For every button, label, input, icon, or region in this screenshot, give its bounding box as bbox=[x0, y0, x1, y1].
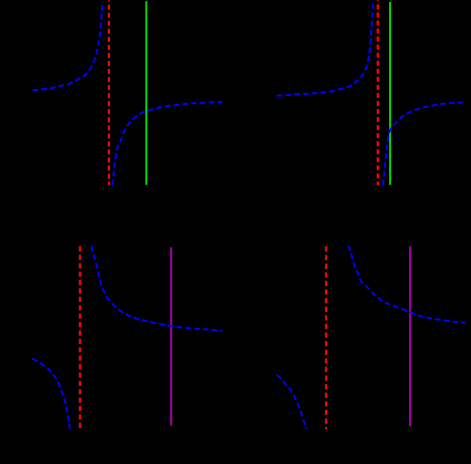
S3 magenta solid vertical line x=171.2 bbox=[170, 247, 172, 426]
S4 blue dashed hyperbola right branch bbox=[348, 246, 466, 323]
S3 blue dashed hyperbola left branch bbox=[32, 359, 70, 429]
S4 magenta solid vertical line x=410.1 bbox=[409, 246, 411, 426]
S2 blue dashed hyperbola left branch bbox=[277, 1, 374, 96]
S4 red dashed vertical asymptote x=326.1 bbox=[325, 246, 327, 429]
S3 red dashed vertical asymptote x=80 bbox=[79, 246, 81, 429]
S2 red dashed vertical asymptote x=377.8 bbox=[377, 1, 379, 186]
S1 blue dashed hyperbola right branch bbox=[112, 102, 222, 185]
S3 blue dashed hyperbola right branch bbox=[91, 246, 222, 331]
S4 blue dashed hyperbola left branch bbox=[277, 375, 307, 429]
S1 green solid vertical line x=146.3 bbox=[145, 1, 147, 185]
S2 green solid vertical line x=390.1 bbox=[389, 2, 391, 185]
S2 blue dashed hyperbola right branch bbox=[383, 102, 466, 185]
S1 blue dashed hyperbola left branch bbox=[33, 1, 103, 90]
S1 red dashed vertical asymptote x=108.9 bbox=[108, 1, 110, 186]
